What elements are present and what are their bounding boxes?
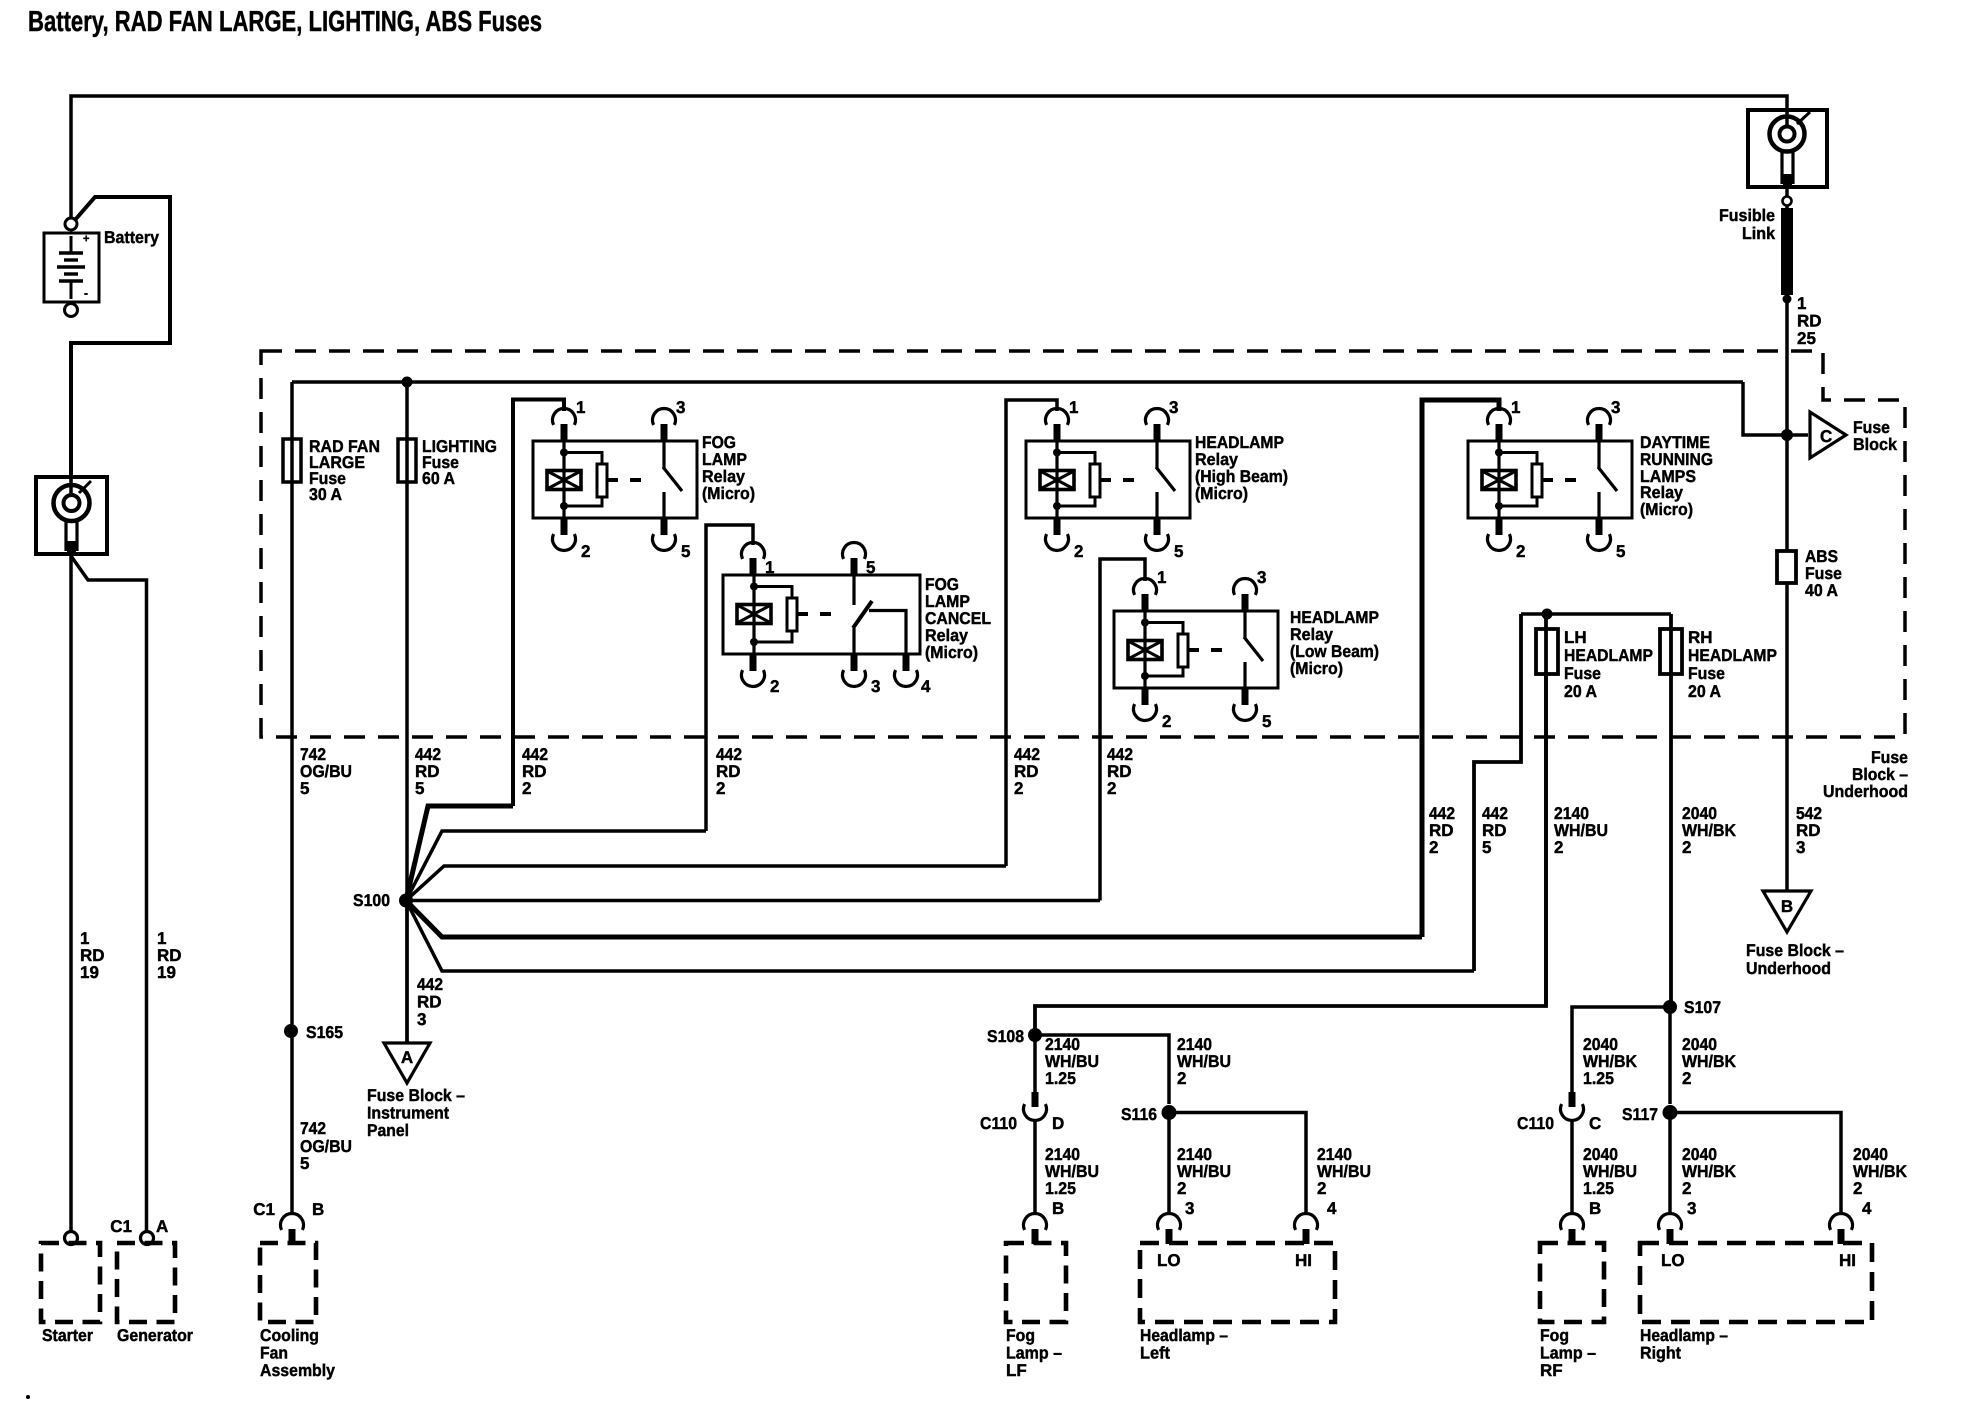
- ring terminal symbol left: [54, 485, 90, 521]
- svg-text:442: 442: [417, 975, 443, 994]
- svg-text:HI: HI: [1839, 1251, 1856, 1270]
- relay coil supply wire (pin1 to pin2 through coil): [752, 575, 755, 654]
- relay coil (box with X): [1482, 471, 1516, 490]
- fog lamp relay K1 switch lower contact: [662, 492, 665, 518]
- svg-text:2: 2: [1317, 1179, 1326, 1198]
- junction dot LH headlamp fuse: [1542, 609, 1553, 620]
- svg-text:2: 2: [1177, 1069, 1186, 1088]
- resistor jumper bottom: [1499, 497, 1537, 506]
- svg-text:3: 3: [417, 1010, 426, 1029]
- svg-text:Headlamp –: Headlamp –: [1640, 1326, 1728, 1345]
- wire 442 RD 2 fog relay pin1 feed: [513, 400, 564, 807]
- svg-text:B: B: [312, 1200, 324, 1219]
- fuse F1 RAD FAN LARGE body: [283, 439, 301, 482]
- svg-text:5: 5: [681, 542, 690, 561]
- ring terminal slash right: [1797, 112, 1810, 124]
- svg-text:S108: S108: [987, 1027, 1024, 1046]
- relay fog lamp relay K1 box: [533, 441, 697, 518]
- actuation dashed link: [797, 612, 842, 616]
- wire to cooling fan connector: [290, 737, 294, 1213]
- triangle A off-page connector: [384, 1043, 430, 1083]
- svg-text:C110: C110: [1517, 1114, 1554, 1133]
- headlamp left LO pin arc: [1158, 1213, 1181, 1229]
- ring terminal slash left: [79, 481, 91, 493]
- wire into ring terminal left: [69, 477, 73, 495]
- svg-text:Right: Right: [1640, 1344, 1681, 1363]
- ring terminal G100 box (left): [36, 477, 107, 554]
- actuation dashed link: [1188, 648, 1233, 652]
- svg-text:3: 3: [1611, 398, 1620, 417]
- svg-text:25: 25: [1797, 329, 1816, 348]
- svg-text:2: 2: [716, 779, 725, 798]
- wire C110-C to fog lamp RF: [1570, 1119, 1574, 1213]
- svg-text:(Micro): (Micro): [702, 484, 755, 503]
- resistor jumper bottom: [1057, 497, 1095, 506]
- wire through LH headlamp fuse: [1544, 614, 1548, 1006]
- resistor jumper top: [564, 453, 602, 465]
- relay coil supply wire (pin1 to pin2 through coil): [1055, 441, 1058, 518]
- svg-text:19: 19: [157, 963, 176, 982]
- wire 442 RD 2 low beam relay pin1 feed: [1100, 559, 1145, 901]
- daytime running lamps relay K5 switch lower contact: [1597, 492, 1600, 518]
- svg-text:(Micro): (Micro): [1290, 659, 1343, 678]
- daytime running lamps relay K5 pin 1: [1496, 424, 1503, 441]
- generator terminal circle: [141, 1232, 154, 1245]
- svg-text:Battery: Battery: [104, 228, 159, 247]
- wire S107 to S117: [1668, 1007, 1672, 1104]
- svg-text:Lamp –: Lamp –: [1540, 1344, 1596, 1363]
- fog lamp relay K1 pin 1: [561, 424, 568, 441]
- fog lamp LF box: [1006, 1243, 1066, 1322]
- daytime running lamps relay K5 pin 3: [1596, 424, 1603, 441]
- relay fog lamp cancel K2 box: [723, 575, 920, 654]
- coil suppression resistor: [1090, 464, 1100, 497]
- svg-text:Fuse Block –: Fuse Block –: [367, 1086, 465, 1105]
- svg-text:Fuse Block –: Fuse Block –: [1746, 941, 1844, 960]
- cancel relay pin 3: [851, 654, 858, 671]
- relay coil (box with X): [737, 605, 771, 624]
- triangle B off-page connector: [1763, 891, 1811, 932]
- svg-text:2: 2: [1177, 1179, 1186, 1198]
- battery plates: [70, 236, 73, 252]
- cancel relay pin 4: [903, 654, 910, 671]
- fog lamp RF box: [1540, 1243, 1604, 1322]
- main feed bus inside fuse block: [292, 380, 1743, 384]
- fog lamp LF pin arc: [1023, 1213, 1046, 1229]
- svg-text:RF: RF: [1540, 1361, 1563, 1380]
- headlamp relay high beam K3 switch blade: [1156, 467, 1175, 491]
- wire ring terminal to starter: [69, 554, 73, 1231]
- wire ring terminal to generator: [71, 556, 147, 1231]
- headlamp relay low beam K4 switch fixed contact: [1243, 611, 1246, 639]
- svg-text:3: 3: [1257, 568, 1266, 587]
- svg-text:Fan: Fan: [260, 1344, 288, 1363]
- svg-text:Battery, RAD FAN LARGE, LIGHTI: Battery, RAD FAN LARGE, LIGHTING, ABS Fu…: [28, 6, 542, 38]
- svg-text:20 A: 20 A: [1564, 682, 1597, 701]
- svg-text:LO: LO: [1661, 1251, 1685, 1270]
- svg-text:5: 5: [1174, 542, 1183, 561]
- wire 442 RD 5 headlamp fuse feed: [1474, 614, 1521, 971]
- cooling fan pin arc: [281, 1213, 304, 1229]
- svg-text:B: B: [1781, 897, 1793, 916]
- coil junction dot lower: [1053, 502, 1061, 510]
- wire 442 RD 2 cancel relay pin1 feed: [706, 525, 753, 831]
- starter box: [41, 1243, 100, 1322]
- starter terminal circle: [65, 1232, 78, 1245]
- headlamp relay high beam K3 pin 2: [1054, 518, 1061, 535]
- headlamp relay high beam K3 pin 3: [1154, 424, 1161, 441]
- svg-text:(Micro): (Micro): [1640, 500, 1693, 519]
- svg-text:LH: LH: [1564, 628, 1587, 647]
- svg-text:Assembly: Assembly: [260, 1361, 336, 1380]
- svg-text:Underhood: Underhood: [1823, 782, 1908, 801]
- svg-text:5: 5: [300, 1154, 309, 1173]
- fog lamp RF pin arc: [1561, 1213, 1584, 1229]
- svg-text:3: 3: [1796, 838, 1805, 857]
- splice S107 dot: [1663, 1000, 1677, 1014]
- svg-text:2: 2: [1682, 838, 1691, 857]
- battery negative terminal circle: [65, 304, 78, 317]
- svg-text:2: 2: [1107, 779, 1116, 798]
- svg-text:Instrument: Instrument: [367, 1104, 449, 1123]
- svg-text:C: C: [1589, 1114, 1601, 1133]
- coil junction dot upper: [560, 449, 568, 457]
- wire battery positive to fusible link (top bus): [71, 96, 1787, 225]
- svg-text:1: 1: [1069, 398, 1078, 417]
- svg-text:A: A: [156, 1217, 168, 1236]
- cooling fan assembly box: [260, 1243, 316, 1322]
- svg-text:C1: C1: [253, 1200, 275, 1219]
- relay coil supply wire (pin1 to pin2 through coil): [1497, 441, 1500, 518]
- svg-text:Panel: Panel: [367, 1121, 409, 1140]
- svg-text:1.25: 1.25: [1045, 1179, 1076, 1198]
- coil suppression resistor: [1178, 634, 1188, 667]
- fuse F4 RH HEADLAMP body: [1660, 629, 1682, 674]
- wire ABS fuse to triangle B: [1785, 583, 1789, 891]
- svg-text:1: 1: [1511, 398, 1520, 417]
- svg-text:1.25: 1.25: [1583, 1069, 1614, 1088]
- svg-text:2: 2: [1074, 542, 1083, 561]
- coil junction dot lower: [1495, 502, 1503, 510]
- svg-text:5: 5: [1482, 838, 1491, 857]
- fuse F3 LH HEADLAMP body: [1536, 629, 1558, 674]
- svg-text:LF: LF: [1006, 1361, 1027, 1380]
- svg-text:Lamp –: Lamp –: [1006, 1344, 1062, 1363]
- S100 fan wire to headlamp fuses feed: [406, 901, 1474, 972]
- cancel relay blade to pin4 link: [869, 611, 906, 654]
- svg-text:2: 2: [522, 779, 531, 798]
- connector C110 cavity C: [1569, 1092, 1576, 1107]
- fusible link bottom dot: [1783, 295, 1792, 304]
- svg-text:2: 2: [1516, 542, 1525, 561]
- splice S116 dot: [1162, 1105, 1177, 1120]
- svg-text:1: 1: [1797, 294, 1806, 313]
- svg-text:S107: S107: [1684, 998, 1721, 1017]
- svg-text:742: 742: [300, 1119, 326, 1138]
- headlamp right HI pin arc: [1830, 1213, 1853, 1229]
- relay headlamp relay high beam K3 box: [1026, 441, 1190, 518]
- svg-text:20 A: 20 A: [1688, 682, 1721, 701]
- coil suppression resistor: [787, 598, 797, 631]
- fuse block underhood dashed border: [261, 351, 1905, 737]
- svg-text:C: C: [1820, 427, 1832, 446]
- relay coil supply wire (pin1 to pin2 through coil): [1143, 611, 1146, 688]
- wire 442 RD 3 S100 to triangle A: [405, 901, 409, 1044]
- relay coil supply wire (pin1 to pin2 through coil): [562, 441, 565, 518]
- coil junction dot lower: [1141, 672, 1149, 680]
- svg-text:5: 5: [415, 779, 424, 798]
- svg-text:B: B: [1589, 1199, 1601, 1218]
- S100 fan wire to high beam feed: [406, 866, 1006, 901]
- headlamp right box: [1640, 1243, 1872, 1322]
- headlamp relay high beam K3 pin 1: [1054, 424, 1061, 441]
- svg-text:2: 2: [1682, 1179, 1691, 1198]
- generator box: [117, 1243, 175, 1322]
- svg-text:2: 2: [1554, 838, 1563, 857]
- S100 fan wire to low beam feed: [406, 899, 1100, 903]
- headlamp relay low beam K4 switch lower contact: [1243, 662, 1246, 688]
- headlamp left HI pin arc: [1295, 1213, 1318, 1229]
- resistor jumper top: [1145, 623, 1183, 635]
- daytime running lamps relay K5 pin 5: [1596, 518, 1603, 535]
- page dot: [26, 1395, 30, 1399]
- svg-text:RH: RH: [1688, 628, 1713, 647]
- svg-text:S165: S165: [306, 1023, 343, 1042]
- fuse F2 LIGHTING body: [398, 439, 416, 482]
- wire battery positive loop: [71, 197, 170, 477]
- svg-text:(Micro): (Micro): [925, 643, 978, 662]
- svg-text:1.25: 1.25: [1583, 1179, 1614, 1198]
- svg-text:2: 2: [581, 542, 590, 561]
- resistor jumper bottom: [1145, 667, 1183, 676]
- relay headlamp relay low beam K4 box: [1114, 611, 1278, 688]
- svg-text:LO: LO: [1157, 1251, 1181, 1270]
- svg-text:S100: S100: [353, 891, 390, 910]
- cancel relay switch fixed contact from pin5: [852, 575, 855, 605]
- fog lamp relay K1 switch blade: [663, 467, 682, 491]
- wire S116 to headlamp left LO: [1167, 1113, 1171, 1214]
- bus to fusible link junction: [1743, 382, 1808, 435]
- svg-text:1.25: 1.25: [1045, 1069, 1076, 1088]
- connector C110 cavity D: [1032, 1092, 1039, 1107]
- fog lamp relay K1 pin 5: [661, 518, 668, 535]
- headlamp relay high beam K3 switch fixed contact: [1155, 441, 1158, 469]
- wire C110-D to fog lamp LF: [1033, 1119, 1037, 1213]
- coil junction dot upper: [1053, 449, 1061, 457]
- svg-text:B: B: [1052, 1199, 1064, 1218]
- fog lamp relay K1 pin 2: [561, 518, 568, 535]
- relay coil (box with X): [547, 471, 581, 490]
- svg-text:Cooling: Cooling: [260, 1326, 319, 1345]
- fusible link top circle: [1783, 197, 1792, 206]
- headlamp relay low beam K4 pin 2: [1142, 688, 1149, 705]
- cancel relay pin 2: [750, 654, 757, 671]
- svg-text:Starter: Starter: [42, 1326, 93, 1345]
- svg-text:60 A: 60 A: [422, 469, 455, 488]
- svg-text:Fog: Fog: [1006, 1326, 1035, 1345]
- svg-text:1: 1: [576, 398, 585, 417]
- splice S165 dot: [284, 1024, 298, 1038]
- svg-text:3: 3: [1169, 398, 1178, 417]
- headlamp relay low beam K4 pin 1: [1142, 594, 1149, 611]
- coil junction dot lower: [560, 502, 568, 510]
- svg-text:3: 3: [871, 677, 880, 696]
- fog lamp relay K1 pin 3: [661, 424, 668, 441]
- wire fusible link down to ABS fuse: [1785, 295, 1789, 551]
- headlamp left box: [1140, 1243, 1335, 1322]
- battery B+ terminal circle: [65, 218, 77, 230]
- svg-text:Generator: Generator: [117, 1326, 193, 1345]
- wire S108 to C110-D: [1033, 1035, 1037, 1092]
- relay coil (box with X): [1040, 471, 1074, 490]
- svg-text:Fuse: Fuse: [1564, 664, 1601, 683]
- svg-text:3: 3: [1185, 1199, 1194, 1218]
- svg-text:5: 5: [1616, 542, 1625, 561]
- resistor jumper top: [1057, 453, 1095, 465]
- svg-text:+: +: [83, 233, 89, 245]
- svg-text:1: 1: [765, 558, 774, 577]
- svg-text:3: 3: [676, 398, 685, 417]
- headlamp relay low beam K4 switch blade: [1244, 637, 1263, 661]
- svg-text:C1: C1: [110, 1217, 132, 1236]
- coil junction dot lower: [750, 638, 758, 646]
- resistor jumper top: [1499, 453, 1537, 465]
- headlamp fuses bus: [1521, 612, 1671, 616]
- bus junction dot at lighting fuse: [402, 377, 413, 388]
- svg-text:4: 4: [1327, 1199, 1337, 1218]
- svg-text:HEADLAMP: HEADLAMP: [1564, 646, 1653, 665]
- headlamp relay high beam K3 pin 5: [1154, 518, 1161, 535]
- wire 442 RD 2 high beam relay pin1 feed: [1006, 400, 1057, 866]
- svg-text:D: D: [1052, 1114, 1064, 1133]
- wire through RH headlamp fuse: [1669, 614, 1673, 1007]
- svg-text:1: 1: [1157, 568, 1166, 587]
- svg-text:Left: Left: [1140, 1344, 1170, 1363]
- wire 442 RD 2 DRL relay pin1 feed: [1422, 400, 1499, 937]
- svg-text:5: 5: [1262, 712, 1271, 731]
- wire S117 to headlamp right LO: [1668, 1113, 1672, 1214]
- svg-text:Headlamp –: Headlamp –: [1140, 1326, 1228, 1345]
- svg-text:2: 2: [1429, 838, 1438, 857]
- svg-text:C110: C110: [980, 1114, 1017, 1133]
- fuse F5 ABS body: [1777, 551, 1796, 583]
- wire lighting fuse down to S100: [405, 382, 409, 1043]
- coil suppression resistor: [1532, 464, 1542, 497]
- wire S116 to headlamp left HI: [1169, 1113, 1306, 1214]
- svg-text:HI: HI: [1295, 1251, 1312, 1270]
- svg-text:A: A: [401, 1048, 413, 1067]
- wire LH fuse to S108: [1035, 674, 1546, 1035]
- wire rad fan fuse: [290, 382, 294, 737]
- headlamp right LO pin arc: [1659, 1213, 1682, 1229]
- svg-text:2: 2: [1162, 712, 1171, 731]
- svg-text:5: 5: [866, 558, 875, 577]
- battery BAT1 box: [44, 233, 99, 302]
- svg-text:30 A: 30 A: [309, 485, 342, 504]
- svg-text:2: 2: [1853, 1179, 1862, 1198]
- svg-text:40 A: 40 A: [1805, 581, 1838, 600]
- cancel relay switch blade (NC): [853, 601, 872, 628]
- headlamp relay low beam K4 pin 3: [1242, 594, 1249, 611]
- actuation dashed link: [1542, 478, 1587, 482]
- coil junction dot upper: [1495, 449, 1503, 457]
- resistor jumper bottom: [754, 631, 792, 642]
- daytime running lamps relay K5 switch blade: [1598, 467, 1617, 491]
- svg-text:(Micro): (Micro): [1195, 484, 1248, 503]
- svg-text:Fusible: Fusible: [1719, 206, 1775, 225]
- S100 fan wire to DRL feed: [406, 901, 1422, 938]
- svg-text:Underhood: Underhood: [1746, 959, 1831, 978]
- svg-text:Link: Link: [1742, 224, 1776, 243]
- resistor jumper bottom: [564, 497, 602, 506]
- cancel relay pin 5: [851, 558, 858, 575]
- wire ring terminal right inner: [1785, 112, 1789, 127]
- svg-text:Fog: Fog: [1540, 1326, 1569, 1345]
- ring terminal box (top right): [1748, 110, 1827, 187]
- splice S100 dot: [399, 894, 413, 908]
- actuation dashed link: [607, 478, 652, 482]
- svg-text:5: 5: [300, 779, 309, 798]
- relay daytime running lamps relay K5 box: [1468, 441, 1632, 518]
- daytime running lamps relay K5 switch fixed contact: [1597, 441, 1600, 469]
- splice S108 dot: [1028, 1028, 1042, 1042]
- svg-text:S116: S116: [1121, 1105, 1157, 1124]
- headlamp relay low beam K4 pin 5: [1242, 688, 1249, 705]
- svg-text:S117: S117: [1622, 1105, 1658, 1124]
- svg-text:RD: RD: [1797, 312, 1822, 331]
- coil junction dot upper: [1141, 619, 1149, 627]
- svg-text:2: 2: [770, 677, 779, 696]
- wire S117 to headlamp right HI: [1670, 1113, 1841, 1214]
- wire S108 to S116: [1035, 1035, 1169, 1104]
- svg-text:19: 19: [80, 963, 99, 982]
- S100 fan wire to fog relay feed: [406, 806, 513, 901]
- fog lamp relay K1 switch fixed contact: [662, 441, 665, 469]
- ring terminal symbol right: [1770, 117, 1805, 152]
- svg-text:RD: RD: [417, 993, 442, 1012]
- S100 fan wire to cancel relay feed: [406, 831, 706, 901]
- junction dot fusible link / bus: [1781, 429, 1793, 441]
- svg-text:Block: Block: [1853, 435, 1898, 454]
- daytime running lamps relay K5 pin 2: [1496, 518, 1503, 535]
- cancel relay pin3 lower contact: [852, 628, 855, 653]
- svg-text:-: -: [84, 286, 88, 300]
- splice S117 dot: [1663, 1105, 1678, 1120]
- svg-text:4: 4: [921, 677, 931, 696]
- svg-text:Fuse: Fuse: [1688, 664, 1725, 683]
- actuation dashed link: [1100, 478, 1145, 482]
- wire ring terminal to fusible link: [1785, 187, 1789, 208]
- svg-text:4: 4: [1862, 1199, 1872, 1218]
- triangle C off-page connector: [1810, 412, 1846, 458]
- resistor jumper top: [754, 587, 792, 599]
- svg-text:HEADLAMP: HEADLAMP: [1688, 646, 1777, 665]
- svg-text:3: 3: [1687, 1199, 1696, 1218]
- coil junction dot upper: [750, 583, 758, 591]
- fusible link element: [1781, 208, 1793, 295]
- cancel relay pin 1: [750, 558, 757, 575]
- svg-text:2: 2: [1014, 779, 1023, 798]
- headlamp relay high beam K3 switch lower contact: [1155, 492, 1158, 518]
- relay coil (box with X): [1128, 641, 1162, 660]
- wire S107 to C110-C: [1572, 1007, 1670, 1092]
- coil suppression resistor: [597, 464, 607, 497]
- svg-text:2: 2: [1682, 1069, 1691, 1088]
